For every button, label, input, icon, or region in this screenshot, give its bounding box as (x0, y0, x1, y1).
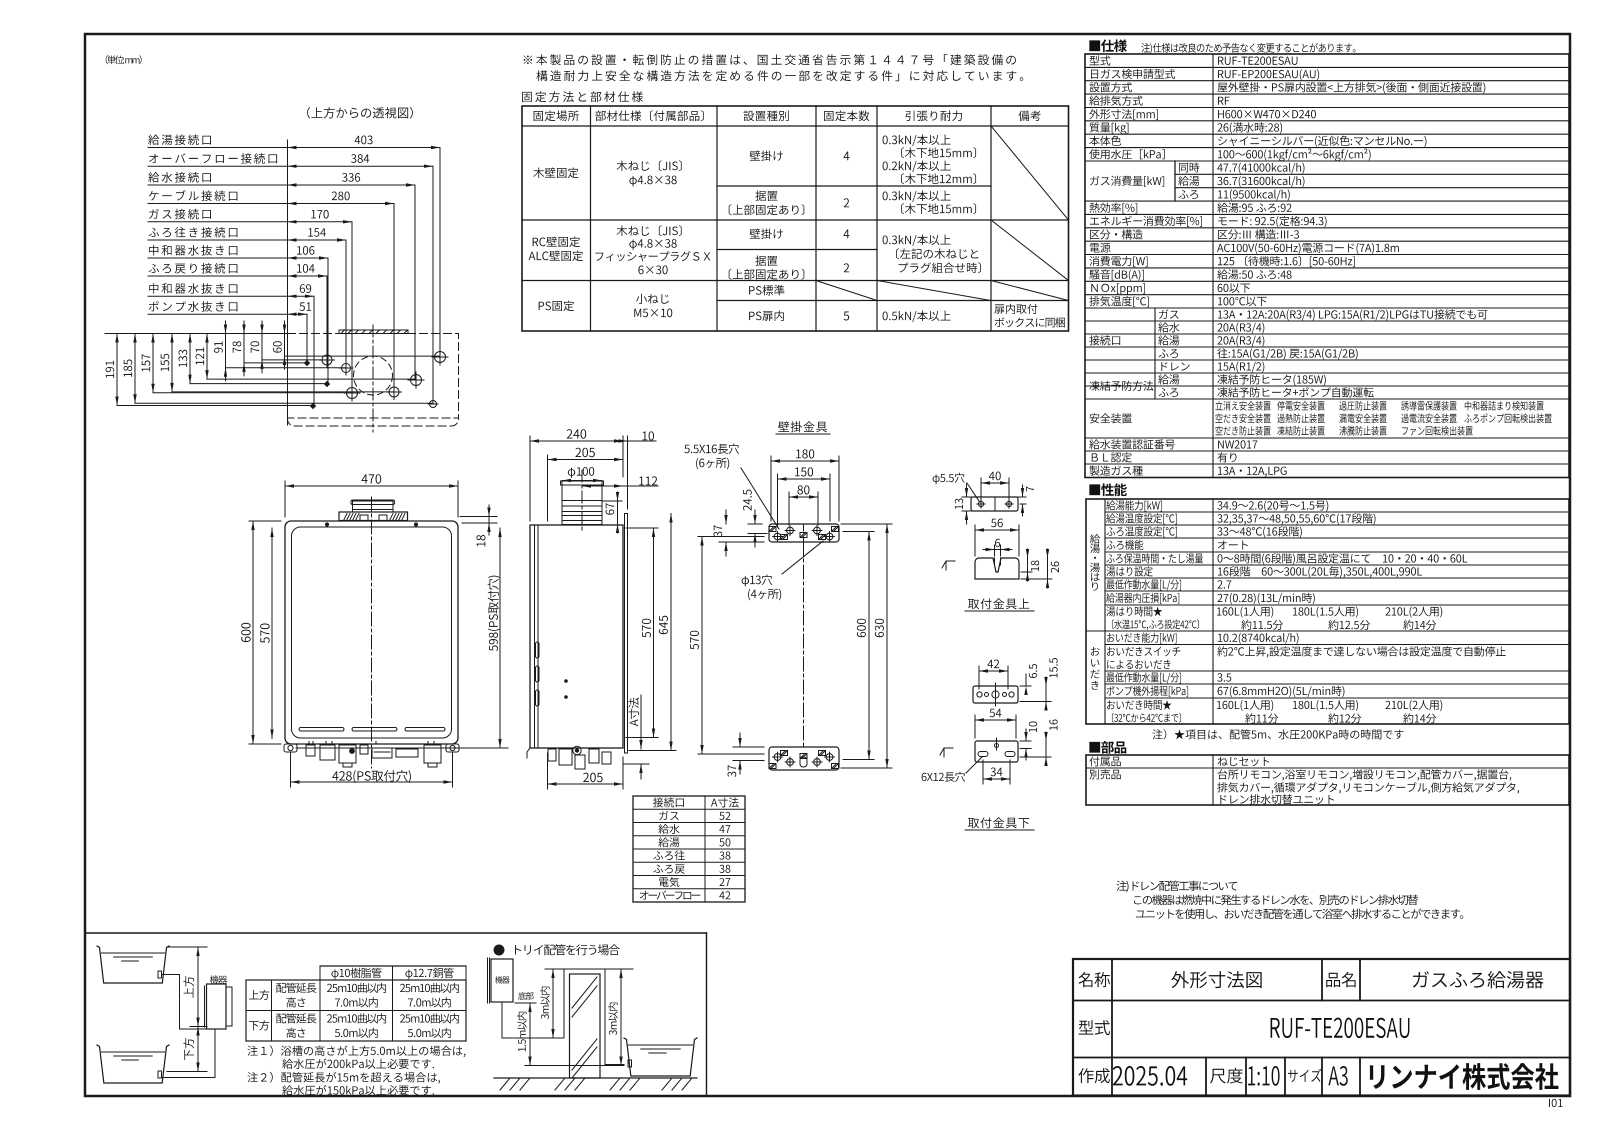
upper mount bracket plate (971, 497, 1018, 511)
left diagram piping lower (162, 1029, 215, 1078)
dim 18 upper bracket profile (1021, 571, 1032, 573)
bracket dim 150 (777, 474, 779, 527)
top view: connector lines from depth dims to ports (117, 405, 313, 407)
side view panel slots (536, 642, 540, 658)
top view: centerline (372, 325, 374, 432)
top view: vertical extension lines from dims to ports (439, 148, 441, 358)
label 底部 (515, 1002, 536, 1004)
dim 13 upper bracket (962, 496, 978, 498)
label Φ5.5穴 (967, 483, 979, 501)
bracket dim 630 (841, 523, 892, 525)
side view wall plate (624, 514, 626, 754)
top view depth dim 157 (152, 334, 154, 393)
dim 3m以内 right (620, 969, 622, 1066)
bracket dim 180 (770, 456, 772, 521)
wall bracket bottom plate (769, 747, 839, 770)
dim 6 upper bracket profile (994, 545, 996, 556)
toriis ref line top (545, 968, 633, 970)
side dim 112 (582, 485, 658, 487)
datum mark upper (942, 561, 955, 570)
left diagram piping upper (162, 975, 207, 1030)
spec table row lines / texts (lower) (1085, 307, 1569, 309)
dim 10 lower bracket (1020, 740, 1031, 742)
top view: exhaust circle (dashed) (354, 356, 393, 395)
front view mounting tabs bottom (284, 744, 297, 752)
top view depth dim 91 (225, 321, 227, 381)
wall bracket top plate slots (hatched) (769, 527, 776, 532)
lower bracket top plate (973, 686, 1018, 703)
bracket dim 570 left (698, 536, 764, 538)
dim 54 lower bracket (974, 715, 976, 738)
top view: top reference line for depth dims (105, 333, 288, 335)
top view depth dim 121 (206, 334, 208, 380)
dim 下方 (167, 1071, 207, 1073)
side dim 570 right (626, 527, 658, 529)
upper bath tub (97, 946, 169, 983)
toriis unit 機器 (491, 959, 513, 1002)
front view tiny port marks on bottom edge (308, 742, 310, 745)
dim 56 upper bracket profile (974, 525, 976, 556)
top view depth dim 191 (116, 334, 118, 406)
wall bracket top plate (769, 524, 839, 542)
top view port label ガス接続口 / dim 170 (148, 221, 288, 223)
top view: connection ports (322, 355, 332, 365)
lower bracket caption (965, 829, 1034, 831)
side view bottom fittings (548, 749, 556, 761)
dim 42 lower bracket (978, 666, 980, 689)
front dim 428(PS取付穴) (290, 752, 292, 787)
top view depth dim 155 (171, 334, 173, 392)
performance table borders (1086, 499, 1569, 724)
dim 上方 (167, 946, 207, 948)
bracket dim 80 (788, 492, 790, 525)
wall bracket label 5.5X16長穴 (741, 468, 779, 529)
top view: wall bracket strip (339, 330, 408, 334)
dim 40 upper bracket (980, 478, 982, 500)
side dim 205 top (547, 455, 549, 521)
side view body (530, 525, 623, 748)
front view top bracket plate (339, 512, 408, 521)
wall bracket centerline (803, 542, 805, 747)
title block outer (1073, 959, 1570, 1096)
side dim 205 bottom (547, 753, 549, 789)
front view bracket small tabs (360, 515, 368, 521)
side dim 240 (529, 436, 531, 521)
front dim 598(PS取付穴) (296, 747, 508, 749)
spec table row lines / texts (upper) (1085, 66, 1569, 68)
side dim 67 (602, 500, 622, 502)
upper bracket caption (965, 610, 1034, 612)
side dim 645 (629, 750, 676, 752)
title block lines (1073, 1000, 1570, 1002)
front view face panel (292, 527, 452, 738)
bracket dim 24.5 (748, 523, 762, 525)
side dim 10 (627, 436, 629, 509)
upper bracket profile (975, 558, 1019, 579)
top view: unit outline (dashed) (288, 334, 459, 419)
side dim A寸法 (623, 763, 649, 765)
toriis piping title (494, 945, 504, 955)
top view depth dim 60 (284, 321, 286, 369)
top view depth dim 78 (243, 321, 245, 376)
spec table outer border (1085, 54, 1569, 478)
side dim Φ100 (562, 480, 602, 482)
top view port label ふろ往き接続口 / dim 154 (148, 239, 288, 241)
parts table (1086, 755, 1569, 805)
piping length table (320, 965, 466, 967)
toriis obstacle wall (570, 974, 601, 1078)
side view exhaust pipe (562, 481, 602, 525)
dim 1.5m以内 (529, 1003, 531, 1066)
top view port label 給湯接続口 / dim 403 (148, 147, 288, 149)
right tub inlet (628, 1060, 632, 1067)
front view bracket slot hatch left (344, 514, 347, 520)
fixing table row lines (522, 125, 1069, 127)
top view: pipe cover tray (dashed) (288, 418, 459, 427)
toriis pipe (502, 969, 624, 1065)
toriis ground line with hatching (494, 1077, 697, 1079)
top view port label ポンプ水抜き口 / dim 51 (148, 313, 288, 315)
front dim 600 (249, 520, 281, 522)
top view: drain point markers (304, 360, 310, 366)
datum mark lower (940, 748, 953, 757)
top view: reference line left edge (287, 140, 289, 425)
front view louvers (299, 728, 344, 732)
left diagram unit 機器 (207, 984, 227, 1029)
dim 26 upper bracket profile (1021, 578, 1052, 580)
fixing table outer border (522, 106, 1069, 331)
top view port label オーバーフロー接続口 / dim 384 (148, 165, 288, 167)
wall bracket top plate holes (774, 533, 781, 540)
top view port label ケーブル接続口 / dim 280 (148, 203, 288, 205)
lower bracket bottom plate (975, 741, 1018, 762)
dim 3m以内 left (552, 969, 554, 1038)
wall bracket title (776, 433, 830, 435)
top view port label 中和器水抜き口 / dim 69 (148, 295, 288, 297)
lower bath tub (97, 1045, 169, 1083)
spec table sub-column line for 接続口/凍結 (1154, 308, 1156, 399)
front view bracket slot hatch right (390, 514, 393, 520)
bracket dim 37 bottom (733, 746, 764, 748)
wall bracket top plate center mark (803, 524, 805, 531)
top view port label 中和器水抜き口 / dim 106 (148, 257, 288, 259)
fixing table diagonal slashes (991, 126, 1069, 220)
dim 15.5 lower bracket (1020, 701, 1051, 703)
front dim 18 (460, 516, 497, 518)
bracket dim 37 top (719, 541, 764, 543)
dim 6.5 lower bracket (1020, 685, 1031, 687)
front view body outline (285, 521, 458, 744)
front view bottom fittings (306, 745, 315, 756)
dim 7 upper bracket (1011, 496, 1026, 498)
front view top screws (325, 523, 328, 526)
bottom section divider lines (85, 932, 707, 934)
side view bottom left hook (527, 748, 530, 758)
top view port label 給水接続口 / dim 336 (148, 184, 288, 186)
front view exhaust duct (353, 501, 394, 512)
front dim 570 (271, 528, 273, 739)
dim 16 lower bracket (1020, 756, 1051, 758)
label 6X12長穴 (966, 757, 982, 773)
right bath tub (624, 1038, 697, 1076)
upper tub outlet (158, 971, 162, 978)
A寸法 table (633, 796, 745, 902)
side view pipe centerline (581, 470, 583, 531)
wall bracket bottom plate slot center (800, 757, 807, 767)
lower tub outlet (158, 1071, 162, 1078)
top view depth dim 133 (189, 334, 191, 384)
dim 34 lower bracket (982, 760, 984, 784)
top view depth dim 185 (134, 334, 136, 404)
side view dots (565, 680, 568, 683)
bracket dim 600 (868, 532, 870, 760)
front dim 470 (284, 481, 286, 517)
spec table main column line (1212, 54, 1214, 478)
fixing table column lines (590, 106, 592, 331)
wall bracket label Φ13穴 (782, 541, 823, 574)
top view: overflow port (430, 401, 437, 408)
toriis ground ref line (525, 1065, 624, 1067)
top view port label ふろ戻り接続口 / dim 104 (148, 275, 288, 277)
front view centerline (371, 497, 373, 768)
top view depth dim 70 (261, 321, 263, 373)
